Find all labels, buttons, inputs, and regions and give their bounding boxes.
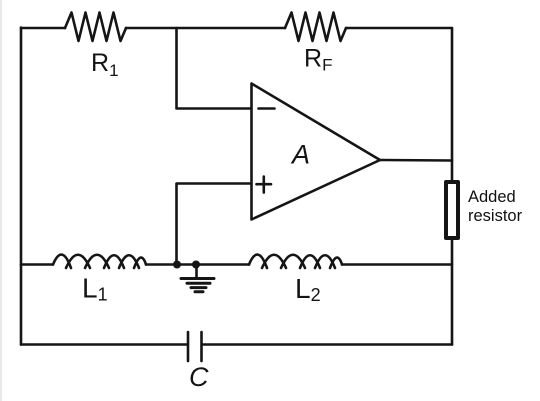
inductor L2	[249, 255, 267, 268]
op-amp U1 triangle	[252, 84, 381, 220]
op-amp minus sign	[259, 107, 275, 110]
wire L-row middle segment	[146, 263, 249, 266]
resistor RF	[285, 13, 346, 42]
wire top-mid segment	[126, 27, 285, 30]
svg-text:A: A	[290, 140, 310, 170]
svg-text:L2: L2	[295, 273, 321, 305]
ground	[181, 265, 214, 292]
added resistor body	[446, 182, 458, 238]
svg-text:R1: R1	[91, 49, 119, 80]
resistor R1	[65, 13, 126, 42]
node junction dot 2	[192, 261, 200, 269]
wire bottom-right segment	[203, 343, 453, 346]
svg-text:L1: L1	[82, 273, 108, 305]
svg-text:Added: Added	[468, 188, 516, 206]
capacitor C plates	[188, 332, 202, 361]
wire top-left segment	[21, 27, 65, 30]
wire left vertical	[20, 28, 23, 345]
node junction dot 1	[173, 261, 181, 269]
left border artifact	[0, 0, 2, 401]
svg-text:RF: RF	[304, 45, 332, 75]
wire feedback drop to inverting input	[177, 28, 252, 109]
wire bottom-left segment	[21, 343, 187, 346]
wire top-right segment	[346, 27, 452, 30]
wire op-amp output	[380, 159, 452, 162]
op-amp plus sign	[257, 177, 272, 193]
svg-text:C: C	[189, 362, 209, 392]
wire right vertical	[451, 28, 454, 345]
wire L-row right segment	[342, 263, 452, 266]
wire noninverting input from ground node	[177, 184, 252, 265]
wire L-row left stub	[21, 263, 53, 266]
inductor L1	[53, 255, 71, 268]
svg-text:resistor: resistor	[468, 207, 523, 225]
